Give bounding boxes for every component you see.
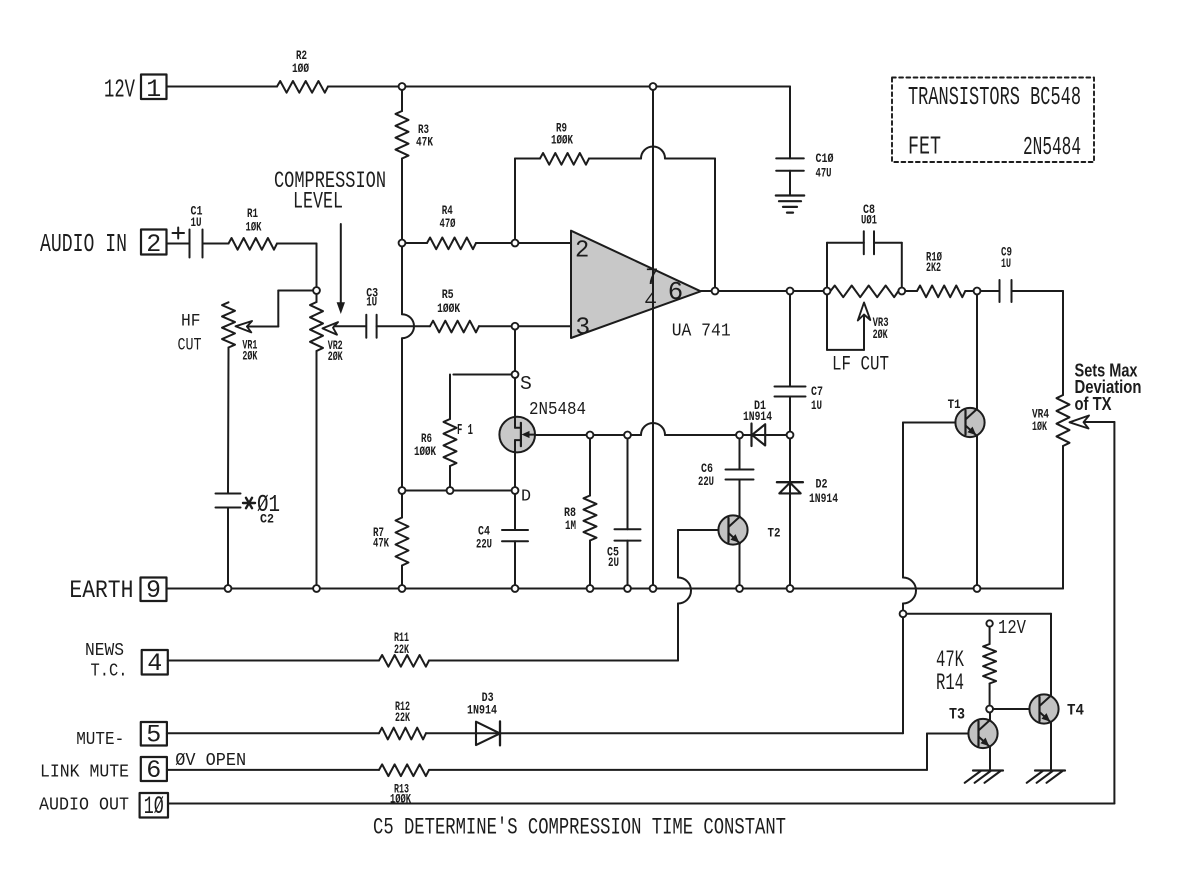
svg-text:T2: T2 [768,526,781,541]
svg-text:1ØØK: 1ØØK [390,792,411,807]
svg-text:9: 9 [146,576,161,605]
svg-text:2U: 2U [608,555,619,570]
svg-text:CUT: CUT [178,336,202,355]
svg-text:4: 4 [644,290,657,314]
svg-text:of TX: of TX [1075,393,1113,414]
svg-text:C2: C2 [260,512,274,527]
svg-text:3: 3 [575,314,590,342]
svg-text:1ØØK: 1ØØK [551,133,573,148]
svg-text:UØ1: UØ1 [861,213,877,228]
svg-text:C5 DETERMINE'S COMPRESSION TIM: C5 DETERMINE'S COMPRESSION TIME CONSTANT [373,815,786,841]
svg-text:D: D [521,488,531,507]
svg-text:ØV OPEN: ØV OPEN [175,750,246,771]
svg-text:1ØØ: 1ØØ [292,61,309,76]
svg-text:LEVEL: LEVEL [293,189,343,215]
svg-text:2: 2 [146,230,161,259]
svg-text:5: 5 [146,721,161,750]
svg-text:2N5484: 2N5484 [1023,132,1081,162]
svg-text:6: 6 [146,756,161,785]
svg-text:22K: 22K [395,710,410,725]
svg-text:1ØØK: 1ØØK [437,301,460,316]
svg-text:2K2: 2K2 [926,260,941,275]
svg-text:1: 1 [146,75,161,104]
svg-text:LINK MUTE: LINK MUTE [40,762,129,783]
svg-text:1ØK: 1ØK [1032,419,1047,434]
svg-text:UA 741: UA 741 [672,320,731,342]
svg-text:1ØØK: 1ØØK [414,444,436,459]
svg-text:D2: D2 [816,477,828,492]
svg-text:NEWS: NEWS [85,640,124,661]
svg-text:6: 6 [668,278,683,307]
svg-text:1ØK: 1ØK [246,220,262,235]
svg-text:1N914: 1N914 [743,409,772,424]
svg-text:R5: R5 [442,287,454,302]
svg-text:AUDIO IN: AUDIO IN [40,229,127,259]
svg-text:2ØK: 2ØK [873,327,888,342]
svg-text:F 1: F 1 [457,423,473,439]
svg-text:22U: 22U [476,537,492,552]
svg-text:1U: 1U [811,398,822,413]
svg-text:C7: C7 [811,384,823,399]
svg-text:1M: 1M [565,518,576,533]
svg-text:T3: T3 [949,706,965,724]
svg-text:22K: 22K [394,642,409,657]
svg-text:2ØK: 2ØK [242,349,257,364]
svg-text:T4: T4 [1067,702,1084,720]
svg-text:T1: T1 [948,397,961,412]
svg-text:HF: HF [181,312,201,331]
svg-text:47K: 47K [373,536,389,551]
svg-text:1U: 1U [1001,256,1011,271]
svg-text:R14: R14 [936,670,964,696]
svg-text:1Ø: 1Ø [144,792,164,821]
svg-text:1U: 1U [191,215,202,230]
svg-text:EARTH: EARTH [69,576,133,605]
svg-text:2ØK: 2ØK [328,349,343,364]
svg-text:AUDIO OUT: AUDIO OUT [39,795,129,816]
svg-text:7: 7 [645,265,659,291]
svg-text:22U: 22U [698,474,714,489]
svg-text:2: 2 [575,238,589,265]
svg-text:12V: 12V [998,617,1026,639]
svg-text:LF CUT: LF CUT [832,354,889,377]
svg-text:47U: 47U [816,166,832,181]
svg-text:1N914: 1N914 [809,491,838,506]
svg-text:47K: 47K [416,135,433,150]
svg-text:TRANSISTORS BC548: TRANSISTORS BC548 [908,82,1081,112]
svg-text:4: 4 [147,649,162,678]
svg-text:FET: FET [908,132,941,162]
svg-text:1U: 1U [366,295,377,310]
svg-text:1N914: 1N914 [467,703,497,718]
svg-text:MUTE-: MUTE- [76,729,124,750]
svg-text:2N5484: 2N5484 [529,400,586,420]
svg-text:T.C.: T.C. [91,661,128,682]
svg-text:C1Ø: C1Ø [816,151,834,166]
svg-text:12V: 12V [104,75,135,105]
svg-text:47Ø: 47Ø [440,216,456,231]
svg-text:S: S [520,373,532,395]
